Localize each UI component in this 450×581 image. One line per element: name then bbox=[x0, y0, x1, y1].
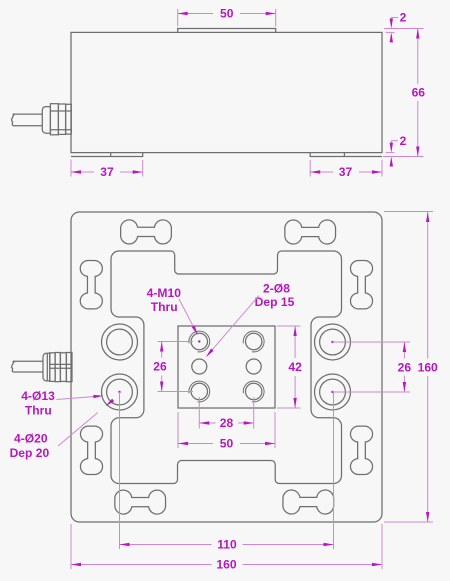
svg-text:37: 37 bbox=[100, 165, 114, 179]
load cell body (side view) bbox=[71, 32, 382, 152]
cable (bottom view) bbox=[11, 361, 43, 372]
slot left-upper (vertical dog-bone) bbox=[80, 260, 102, 308]
slot bottom-right (horizontal dog-bone) bbox=[283, 490, 334, 514]
dimension 110 (hole span) bbox=[118, 391, 333, 552]
label 4-O20 Dep 20 bbox=[10, 399, 115, 460]
tapped hole M10 top-right bbox=[243, 331, 264, 352]
slot right-upper (vertical dog-bone) bbox=[351, 260, 373, 308]
dimension 2 (foot height) bbox=[383, 134, 424, 167]
dimension 2 (boss height) bbox=[384, 10, 424, 42]
slot top-left (horizontal dog-bone) bbox=[121, 220, 172, 244]
svg-text:160: 160 bbox=[216, 558, 236, 572]
svg-text:50: 50 bbox=[220, 437, 234, 451]
hole 2-O8 left bbox=[192, 359, 207, 374]
svg-text:26: 26 bbox=[398, 360, 412, 374]
svg-text:2: 2 bbox=[400, 10, 407, 24]
tapped hole M10 top-left bbox=[189, 331, 210, 352]
cable (side view) bbox=[11, 113, 42, 125]
bottom foot pad right bbox=[310, 153, 382, 157]
svg-text:Dep 15: Dep 15 bbox=[255, 295, 295, 309]
svg-text:160: 160 bbox=[418, 360, 438, 374]
top boss pad (50 wide) bbox=[178, 29, 276, 33]
cable gland (side view) bbox=[42, 104, 71, 135]
label 4-M10 Thru bbox=[147, 286, 200, 336]
svg-text:110: 110 bbox=[217, 538, 237, 552]
counterbore hole 4-O20/O13 upper-left bbox=[102, 324, 138, 360]
counterbore hole 4-O20/O13 upper-right bbox=[315, 324, 351, 360]
tapped hole M10 bottom-left bbox=[189, 381, 210, 402]
base plate outline 160x160 bbox=[71, 212, 382, 522]
svg-text:Thru: Thru bbox=[151, 300, 178, 314]
svg-text:50: 50 bbox=[220, 7, 234, 21]
svg-text:4-Ø20: 4-Ø20 bbox=[14, 431, 48, 445]
dimension 42 (boss height) bbox=[277, 326, 302, 408]
dimension 160 (plate height) bbox=[384, 212, 438, 523]
dimension 160 (plate width) bbox=[71, 524, 382, 572]
counterbore hole 4-O20/O13 lower-right bbox=[315, 374, 351, 410]
svg-text:Thru: Thru bbox=[25, 403, 52, 417]
svg-text:4-Ø13: 4-Ø13 bbox=[21, 389, 55, 403]
label 2-O8 Dep 15 bbox=[205, 282, 295, 359]
hole 2-O8 right bbox=[246, 359, 261, 374]
svg-text:66: 66 bbox=[412, 86, 426, 100]
svg-text:4-M10: 4-M10 bbox=[147, 286, 182, 300]
svg-text:28: 28 bbox=[220, 416, 234, 430]
dimension 37 left foot bbox=[71, 160, 143, 180]
slot top-right (horizontal dog-bone) bbox=[285, 220, 336, 244]
label 4-O13 Thru bbox=[21, 389, 103, 417]
inner pocket contour bbox=[111, 251, 342, 484]
central mounting boss 50x42 bbox=[178, 326, 275, 408]
svg-text:2-Ø8: 2-Ø8 bbox=[263, 282, 290, 296]
slot bottom-left (horizontal dog-bone) bbox=[115, 490, 166, 514]
bottom foot pad left bbox=[71, 153, 143, 157]
tapped hole M10 bottom-right bbox=[243, 381, 264, 402]
dimension 50 (top boss width) bbox=[178, 7, 276, 27]
dimension 50 (boss width) bbox=[178, 412, 275, 451]
slot right-lower (vertical dog-bone) bbox=[351, 426, 373, 474]
cable gland (bottom view) bbox=[43, 353, 72, 382]
svg-text:37: 37 bbox=[339, 165, 353, 179]
svg-text:26: 26 bbox=[153, 360, 167, 374]
svg-text:42: 42 bbox=[288, 360, 302, 374]
dimension 26 (counterbore vertical pitch) bbox=[331, 341, 411, 393]
dimension 26 (M10 vertical pitch) bbox=[153, 342, 193, 392]
dimension 66 (body height) bbox=[412, 29, 426, 157]
dimension 37 right foot bbox=[310, 160, 382, 179]
svg-text:Dep 20: Dep 20 bbox=[10, 446, 50, 460]
dimension 28 (M10 horizontal pitch) bbox=[199, 397, 253, 430]
svg-text:2: 2 bbox=[400, 134, 407, 148]
counterbore hole 4-O20/O13 lower-left bbox=[102, 374, 138, 410]
slot left-lower (vertical dog-bone) bbox=[81, 426, 103, 474]
